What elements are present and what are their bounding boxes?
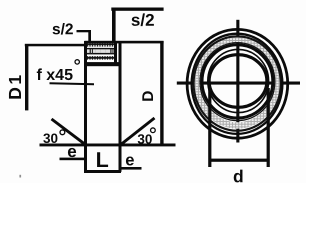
knurled ring texture (197, 40, 277, 126)
d dimension line (209, 159, 269, 162)
knurl stipple row C (87, 56, 115, 60)
second circle (192, 34, 283, 134)
svg-text:30: 30 (43, 131, 58, 146)
svg-text:e: e (67, 142, 76, 161)
knurled ring inner boundary (200, 43, 275, 121)
thin circle inside ring (208, 49, 269, 112)
knurl band end ticks right (110, 49, 111, 54)
L-box bottom line (84, 170, 121, 173)
s/2 left leader horizontal (77, 30, 91, 32)
knurl band end ticks left (90, 49, 91, 54)
s/2 left leader vertical (88, 30, 91, 42)
vertical center line (236, 20, 239, 143)
svg-text:D: D (140, 91, 157, 102)
body right edge wall (119, 41, 122, 172)
right 30deg diagonal (119, 118, 155, 146)
s/2 right bracket vertical (112, 8, 116, 42)
svg-text:L: L (96, 148, 109, 172)
knurl stipple row A (87, 43, 115, 46)
degree circle of 30 left (60, 130, 65, 135)
stray scan speck (19, 175, 21, 178)
knurl groove upper line (87, 48, 115, 50)
e right dimension line (122, 167, 142, 170)
D dimension vertical line (160, 41, 163, 144)
knurled ring inner boundary circle (202, 45, 273, 118)
degree circle of f x45 (75, 60, 79, 64)
svg-text:D1: D1 (5, 72, 25, 99)
degree circle of 30 right (151, 128, 156, 133)
f x45 leader line (50, 82, 95, 85)
outer circle (187, 29, 288, 138)
knurl bottom solid bar (85, 62, 121, 66)
D1 dimension vertical line (25, 44, 28, 110)
d extension line right (267, 88, 270, 167)
left 30deg diagonal (52, 119, 88, 146)
knurl grey band (87, 49, 115, 53)
knurl right wall (114, 41, 117, 66)
d extension line left (208, 88, 211, 167)
bore circle (209, 55, 267, 108)
horizontal center line (177, 82, 300, 85)
svg-text:s/2: s/2 (131, 11, 155, 30)
svg-text:d: d (233, 166, 244, 183)
e left dimension line (60, 158, 86, 161)
svg-text:s/2: s/2 (52, 21, 74, 38)
knurl groove lower line (87, 53, 115, 55)
svg-text:e: e (125, 151, 134, 169)
D1 extension line horizontal (25, 44, 86, 47)
svg-text:30: 30 (137, 132, 152, 147)
baseline (40, 144, 176, 147)
s/2 right bracket horizontal (111, 8, 163, 11)
top edge line of nut (85, 41, 164, 44)
svg-text:f x45: f x45 (36, 67, 73, 84)
knurled ring outer boundary (194, 36, 281, 130)
body left edge wall (84, 41, 87, 172)
